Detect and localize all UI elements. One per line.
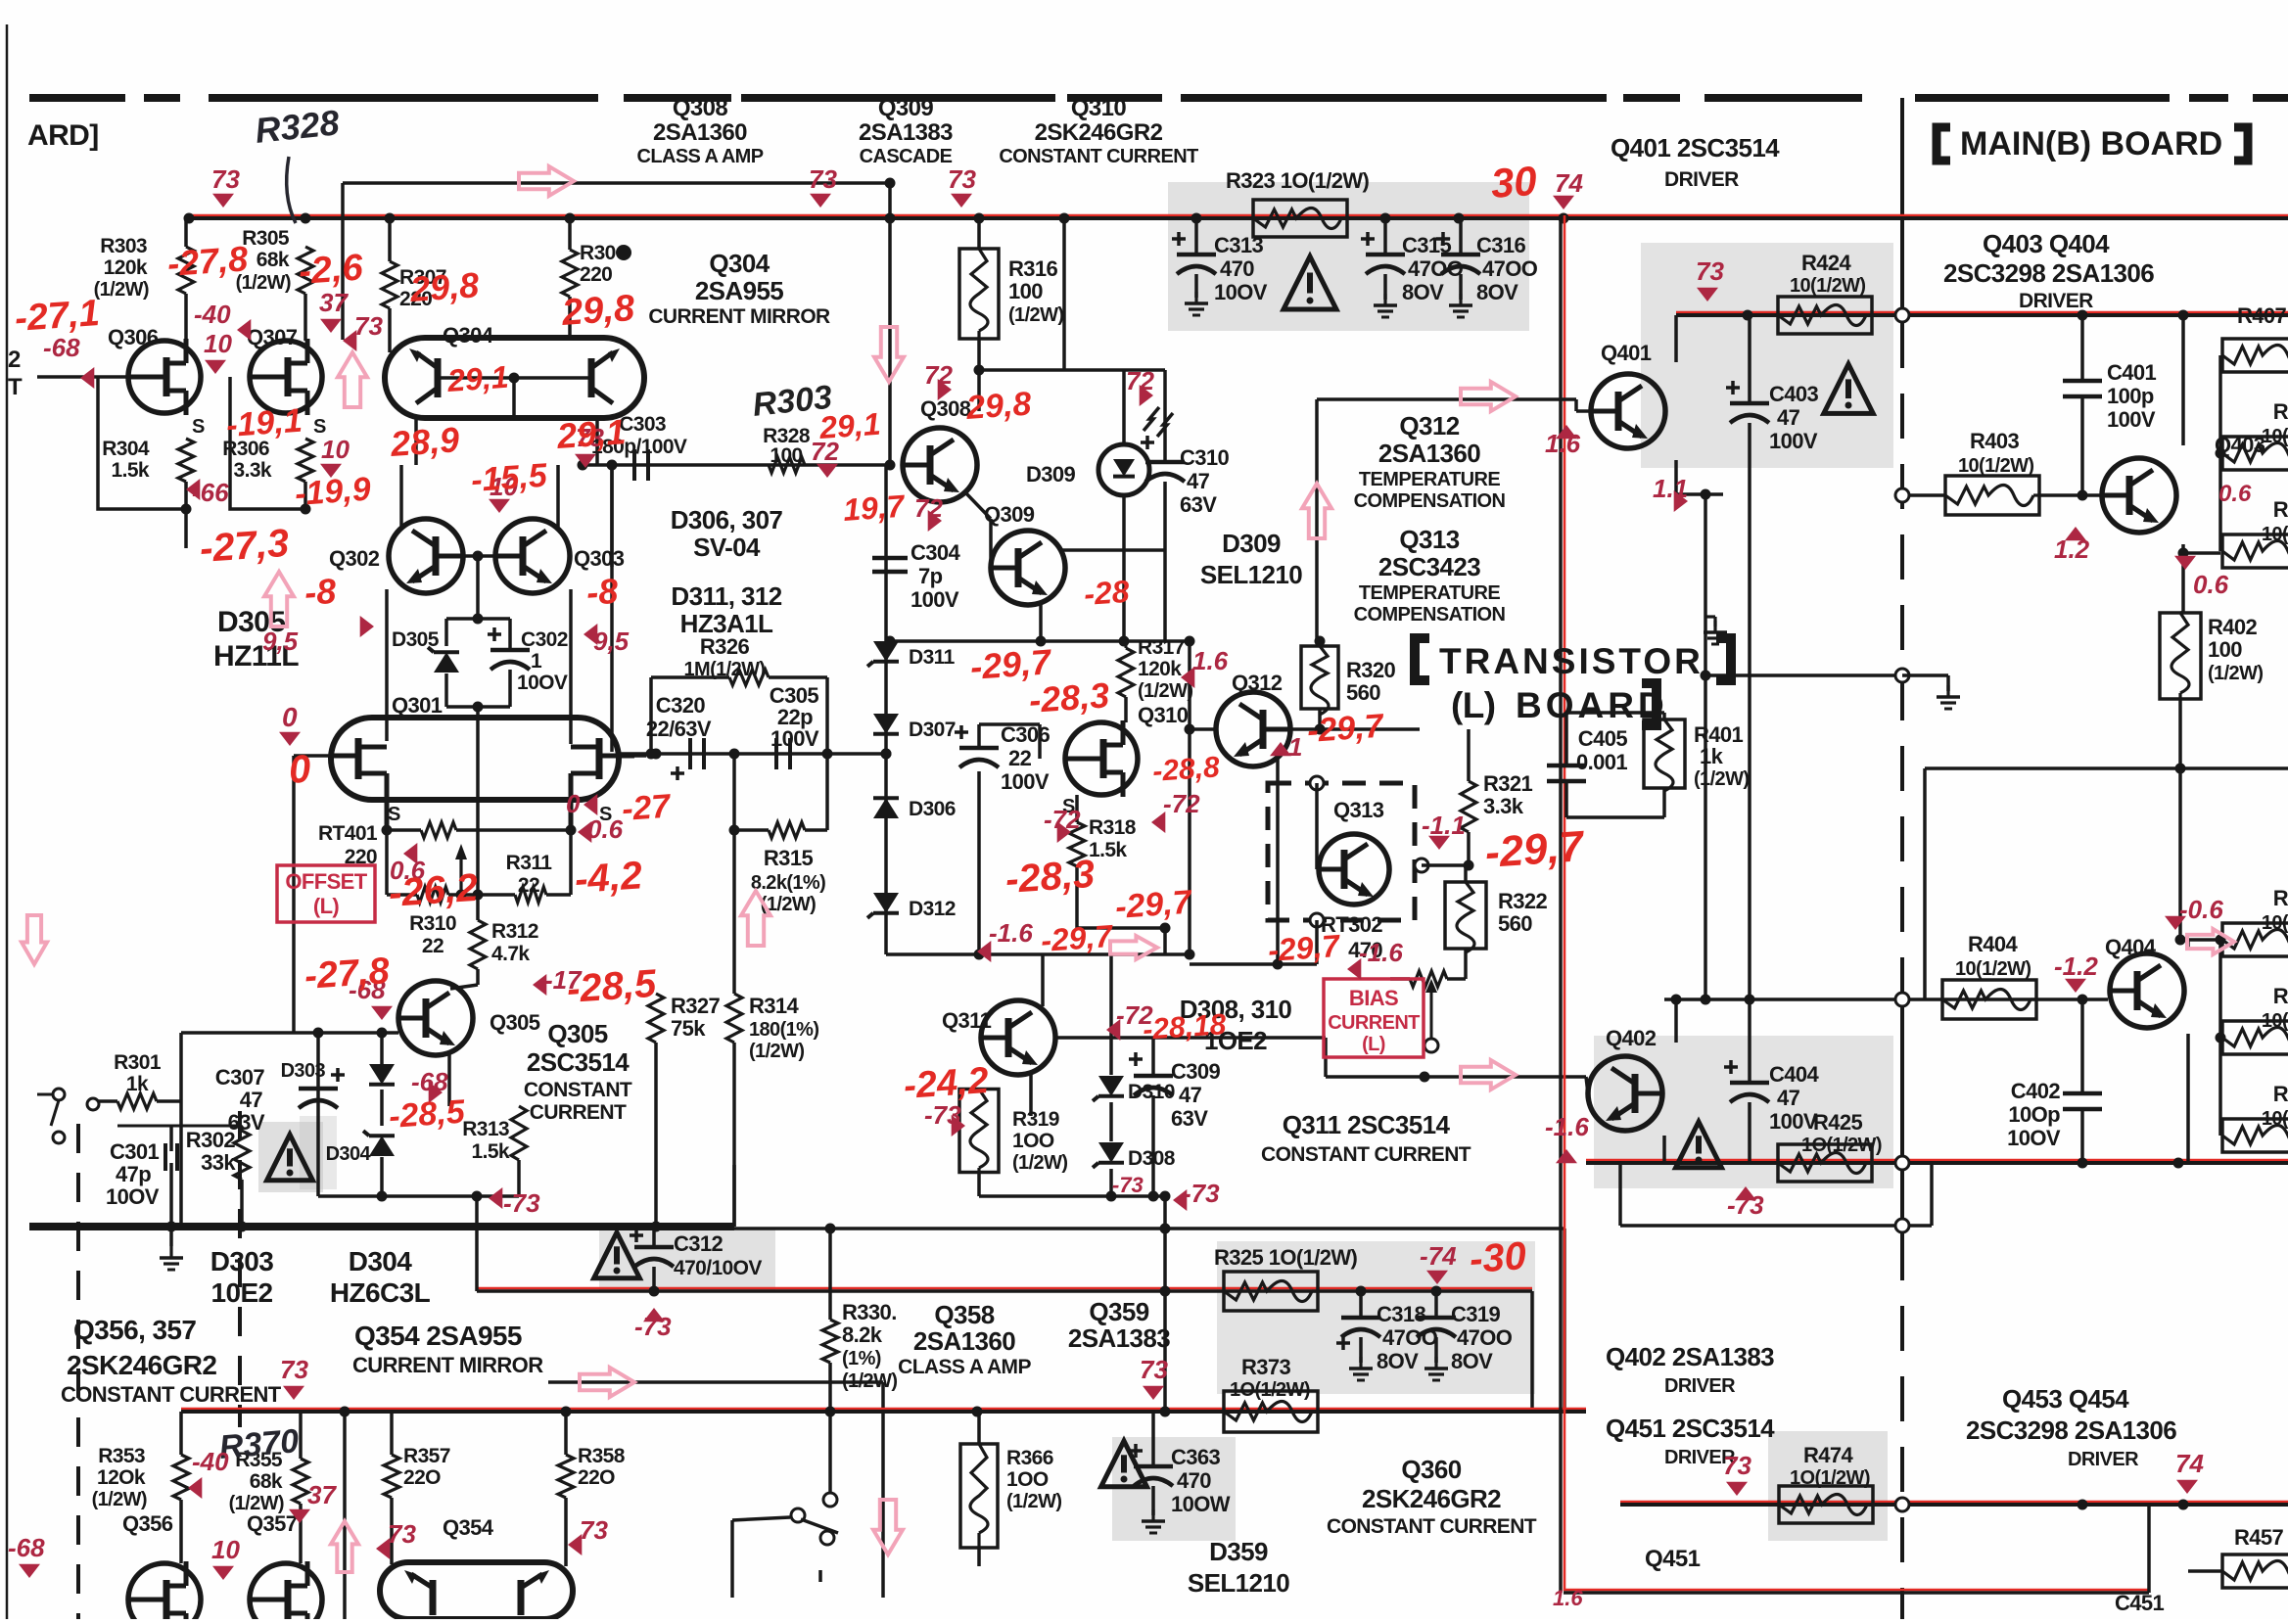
node rail E / Q404 (2173, 1158, 2184, 1169)
stamp 0.6 u (390, 843, 426, 885)
node y1222 x487 (472, 1191, 483, 1202)
svg-text:Q303: Q303 (574, 546, 625, 571)
label Q311 block (1261, 1110, 1471, 1166)
label R318 (1089, 816, 1137, 861)
label Q313 block (1354, 525, 1506, 626)
wire y=1627 (1564, 1591, 2149, 1595)
label R311 (506, 852, 553, 874)
resistor R311 (515, 887, 546, 903)
stamp 73 ar (1140, 1355, 1168, 1400)
svg-text:63V: 63V (1171, 1106, 1208, 1131)
svg-text:R322: R322 (1498, 889, 1548, 913)
node bus/C301 (166, 1222, 177, 1232)
transistor Q356 (128, 1561, 201, 1624)
warning triangle C363 (1101, 1441, 1147, 1487)
label R305 value (257, 249, 290, 271)
svg-text:CURRENT: CURRENT (530, 1101, 627, 1124)
wire RT302 wiper (1424, 1000, 1438, 1052)
label R474 (1790, 1443, 1870, 1489)
wire Q403 collector (2164, 315, 2183, 466)
svg-text:29,1: 29,1 (555, 411, 628, 456)
svg-text:2SK246GR2: 2SK246GR2 (67, 1350, 216, 1380)
LED D309 (1098, 444, 1149, 495)
svg-text:CLASS A AMP: CLASS A AMP (637, 146, 764, 167)
node rail J x2127 (2078, 1500, 2088, 1510)
svg-text:R373: R373 (1241, 1355, 1291, 1379)
capacitor C316 plus (1436, 232, 1450, 246)
label C313 (1214, 233, 1268, 304)
wire y=1255 mid (734, 1227, 1564, 1230)
transistor pair Q354 (380, 1562, 573, 1619)
svg-text:R315: R315 (764, 846, 814, 870)
capacitor C316 (1441, 255, 1480, 274)
svg-text:2SA1383: 2SA1383 (859, 119, 953, 146)
node rail B / C403 (1743, 310, 1753, 321)
hw -29.7 left (1114, 884, 1194, 926)
shading D304 area (258, 1122, 323, 1192)
svg-text:HZ3A1L: HZ3A1L (680, 609, 773, 638)
stamp 37 av (289, 1480, 337, 1523)
svg-text:R404: R404 (1968, 932, 2019, 956)
transistor Q402 (1588, 1056, 1662, 1131)
wire x670 top (655, 677, 657, 754)
resistor R321 (1461, 781, 1476, 832)
label R301 (114, 1051, 162, 1074)
label R355 (229, 1449, 284, 1514)
wire Q311 emitter (979, 1071, 1031, 1116)
stamp 1.2 bb (2054, 527, 2090, 564)
node x909/y187 (885, 178, 896, 189)
label ARD] (27, 119, 99, 152)
hw -28 q309 (1083, 574, 1131, 612)
svg-text:R302: R302 (186, 1128, 236, 1152)
svg-text:D304: D304 (349, 1246, 413, 1276)
stamp 1.6 ag (1181, 646, 1229, 688)
hw -26.2 (388, 866, 480, 915)
svg-text:2: 2 (8, 347, 21, 373)
svg-text:100V: 100V (1001, 769, 1050, 794)
LED D309 rays (1144, 407, 1173, 437)
resistor R313 (511, 1106, 527, 1160)
label D308 310 (1180, 995, 1292, 1055)
svg-text:C316: C316 (1476, 233, 1526, 257)
wire Q311 collector (1041, 954, 1045, 1006)
svg-text:Q308: Q308 (920, 396, 971, 421)
svg-text:Q301: Q301 (392, 693, 443, 718)
label Q356 (122, 1511, 173, 1536)
svg-text:RT401: RT401 (318, 822, 378, 845)
trimmer RT302 (1410, 971, 1447, 1000)
svg-text:73: 73 (809, 164, 837, 194)
svg-text:CURRENT: CURRENT (1328, 1012, 1420, 1034)
stamp 73 b (809, 164, 837, 208)
Q304 base tie (438, 376, 591, 380)
capacitor C320 plus (671, 766, 684, 780)
stamp 9.5 t (262, 616, 374, 656)
hw -15.5 (470, 457, 549, 499)
svg-text:100p: 100p (2107, 384, 2154, 408)
wire R355 (299, 1412, 303, 1563)
label D359 block (1188, 1537, 1289, 1598)
label R358 (578, 1445, 626, 1489)
svg-text:R318: R318 (1089, 816, 1137, 839)
mid rail y=785 right section (1925, 766, 2288, 770)
wire R316 down (977, 339, 981, 370)
node d305 top (473, 614, 484, 625)
svg-text:73: 73 (280, 1355, 308, 1384)
wire Q302-Q303 base tie (444, 554, 523, 558)
resistor R316 box (959, 249, 999, 339)
svg-text:Q311 2SC3514: Q311 2SC3514 (1283, 1110, 1451, 1139)
node y1318/x1190 (1160, 1286, 1171, 1297)
stamp 73 f (1696, 256, 1724, 302)
label R316 (1008, 256, 1063, 326)
shading R474 area (1768, 1431, 1888, 1541)
svg-text:100V: 100V (911, 587, 959, 612)
wire C403 (1748, 315, 1751, 494)
label C307 voltage (228, 1110, 265, 1135)
resistor R312 (470, 920, 486, 969)
node y1442/x352 (340, 1407, 350, 1417)
capacitor C403 (1730, 403, 1769, 423)
stamp 74 d (1553, 168, 1583, 209)
label Q310 (1138, 703, 1189, 727)
svg-text:C404: C404 (1769, 1062, 1820, 1087)
ground stub right of C405 (1704, 617, 1727, 644)
label R319 (1012, 1108, 1067, 1174)
node y745 x1348 (1315, 724, 1326, 735)
hw -2.6 (298, 247, 365, 293)
wire R307 to Q304 (388, 308, 392, 352)
label Q312 (1232, 671, 1283, 695)
wire Q401 collector (1653, 315, 1676, 387)
svg-text:8.2k(1%): 8.2k(1%) (751, 872, 825, 894)
wire center down (476, 707, 480, 895)
label RT302 (1321, 912, 1382, 962)
label right resistor 6 (2262, 1082, 2288, 1130)
shading Q402/C404/R425 area (1594, 1036, 1893, 1188)
capacitor C312 plus (630, 1229, 643, 1242)
hw -27.1 (14, 293, 101, 340)
node rail B / C401 (2078, 310, 2088, 321)
node y1318/x1390 (1356, 1286, 1367, 1297)
+73V top supply rail (189, 216, 2288, 220)
svg-text:10OV: 10OV (517, 672, 568, 694)
wire right box top (2220, 354, 2222, 356)
svg-text:Q305: Q305 (547, 1019, 607, 1048)
node Q404 base (2078, 995, 2088, 1005)
label R302 (186, 1128, 237, 1175)
label R407 (2237, 303, 2287, 328)
wire Q402 emitter (1650, 1119, 1664, 1163)
capacitor C309 (1134, 1076, 1173, 1095)
svg-text:R353: R353 (98, 1445, 145, 1467)
svg-text:R358: R358 (578, 1445, 626, 1467)
wire y975 ext (979, 952, 1190, 956)
svg-text:8OV: 8OV (1402, 280, 1444, 304)
resistor R317 (1118, 648, 1134, 697)
resistor R327 (648, 994, 664, 1043)
wire Q310 drain up (1122, 705, 1124, 722)
node Q304 base mid (509, 373, 520, 384)
svg-text:(1/2W): (1/2W) (1694, 768, 1749, 790)
label C302 value (531, 650, 542, 673)
svg-text:68k: 68k (257, 249, 290, 271)
wire C318 (1359, 1291, 1363, 1363)
svg-text:3.3k: 3.3k (1483, 794, 1524, 818)
svg-text:Q451 2SC3514: Q451 2SC3514 (1606, 1414, 1775, 1443)
resistor R318 (1069, 822, 1085, 866)
node right tie lower (2216, 1033, 2226, 1044)
wire y1222 right (979, 1194, 1165, 1198)
open circle y1252 board boundary (1895, 1219, 1909, 1232)
svg-text:C451: C451 (2115, 1591, 2165, 1615)
wire R315 (734, 754, 827, 994)
svg-text:47: 47 (1179, 1083, 1202, 1107)
svg-text:37: 37 (319, 288, 349, 317)
svg-text:47OO: 47OO (1457, 1325, 1513, 1350)
svg-text:2SC3298 2SA1306: 2SC3298 2SA1306 (1966, 1415, 2176, 1445)
resistor R407 box (2222, 339, 2288, 372)
label C319 (1451, 1302, 1513, 1373)
hw 19.7 (842, 488, 908, 528)
hw -29.7 mid (969, 641, 1054, 687)
svg-text:73: 73 (1723, 1451, 1751, 1480)
node x1712 y1021 (1671, 995, 1682, 1005)
stamp 1.6 ai (1545, 425, 1581, 458)
stamp 0.6 w (578, 814, 624, 844)
svg-text:C309: C309 (1171, 1059, 1221, 1084)
svg-text:DRIVER: DRIVER (1664, 168, 1739, 191)
node rail/R316 (974, 213, 985, 224)
wire R322-RT302 (1447, 977, 1466, 981)
flow arrow y408 (1461, 382, 1516, 411)
resistor R326 (729, 670, 769, 685)
svg-text:-1.6: -1.6 (989, 918, 1033, 948)
wire Q403 emitter (2164, 525, 2183, 612)
label R310 value (422, 935, 444, 957)
wire R353 (179, 1412, 183, 1563)
svg-text:CURRENT MIRROR: CURRENT MIRROR (648, 305, 830, 328)
node y975 x1000 (974, 950, 985, 960)
svg-text:1.5k: 1.5k (1089, 839, 1127, 861)
resistor R330 (822, 1320, 838, 1363)
label D310 (1128, 1081, 1175, 1103)
svg-text:-1.6: -1.6 (1359, 938, 1403, 967)
wire Q313 col (1389, 865, 1415, 869)
resistor R315 (769, 822, 805, 838)
svg-text:10Op: 10Op (2008, 1102, 2060, 1127)
svg-text:10E2: 10E2 (211, 1277, 273, 1308)
svg-text:DRIVER: DRIVER (1664, 1375, 1736, 1397)
svg-text:33k: 33k (201, 1150, 236, 1175)
resistor R457 box (2222, 1554, 2288, 1588)
svg-text:73: 73 (211, 164, 240, 194)
node Q305 base x325 (313, 1028, 324, 1039)
resistor R325 box (1224, 1272, 1318, 1311)
stamp 1.1 aj (1653, 474, 1688, 512)
wire x1742 down (1704, 494, 1707, 675)
wire Q402 base (1586, 1077, 1588, 1093)
node rail/x909 (885, 213, 896, 224)
svg-text:120k: 120k (1138, 658, 1182, 680)
open circle R330 bottom (823, 1493, 837, 1507)
wire right boxes tie (2183, 355, 2220, 553)
stamp 0.6 bd (2174, 556, 2229, 599)
svg-text:TEMPERATURE: TEMPERATURE (1359, 469, 1500, 490)
node y1222 x390 (377, 1191, 388, 1202)
vertical x=1565 joining rails (1530, 1291, 1534, 1412)
hw -29.7 r321 (1483, 822, 1587, 877)
svg-text:Q312: Q312 (1399, 411, 1459, 441)
node rail/R307 (385, 213, 396, 224)
svg-text:R303: R303 (100, 235, 147, 257)
label C405 (1576, 726, 1627, 774)
svg-text:C313: C313 (1214, 233, 1264, 257)
svg-text:0.6: 0.6 (2193, 570, 2229, 599)
stamp -68 ax (8, 1533, 45, 1578)
svg-text:22: 22 (518, 874, 539, 897)
open node Q313 base top (1310, 776, 1324, 790)
label C316 (1476, 233, 1538, 304)
svg-text:0: 0 (566, 789, 581, 818)
svg-text:CLASS A AMP: CLASS A AMP (898, 1356, 1031, 1378)
svg-text:47: 47 (1777, 405, 1800, 430)
svg-text:29,8: 29,8 (408, 264, 481, 309)
svg-text:22O: 22O (578, 1466, 615, 1489)
hw -29.7 r320 (1306, 708, 1386, 750)
svg-text:R: R (2273, 497, 2288, 522)
zener D312 (867, 893, 899, 918)
resistor R323 box (1253, 200, 1347, 237)
label Q304 block (648, 249, 830, 328)
label Q401 top (1611, 133, 1780, 191)
svg-text:470: 470 (1220, 256, 1254, 281)
svg-text:10(: 10( (2262, 426, 2288, 447)
resistor R424 box (1778, 297, 1872, 334)
svg-text:SV-04: SV-04 (693, 533, 761, 562)
svg-text:CONSTANT CURRENT: CONSTANT CURRENT (1261, 1143, 1471, 1166)
wire collector Q305 up (435, 905, 437, 981)
wire R357 (390, 1412, 394, 1564)
label R311 value (518, 874, 539, 897)
svg-text:37: 37 (307, 1480, 337, 1509)
wire R301 (96, 1099, 318, 1103)
stamp 0 v (566, 789, 597, 818)
svg-text:C301: C301 (110, 1139, 160, 1164)
wire C309 (1151, 1038, 1155, 1196)
wire y475 main (583, 463, 890, 467)
wire y1222 (318, 1194, 477, 1198)
svg-text:-28,18: -28,18 (1142, 1008, 1227, 1046)
svg-text:22O: 22O (403, 1466, 441, 1489)
node y655 x1063 (1036, 636, 1047, 647)
label R308 value (580, 263, 612, 286)
label C302 voltage (517, 672, 568, 694)
wire Q307 source loop (230, 377, 305, 509)
resistor R402 box (2160, 613, 2201, 699)
hw -19.1 (225, 402, 304, 444)
capacitor C302 plus (488, 627, 501, 641)
svg-text:63V: 63V (1180, 492, 1217, 517)
wire R310 R311 row (387, 830, 571, 895)
label Q302 (329, 546, 380, 571)
wire C405 R401 top (1566, 713, 1664, 766)
svg-text:1.5k: 1.5k (472, 1140, 510, 1163)
svg-text:Q401 2SC3514: Q401 2SC3514 (1611, 133, 1780, 162)
wire R358 (564, 1412, 568, 1566)
board boundary vertical dashed mid (1900, 323, 1904, 994)
svg-text:10OV: 10OV (2007, 1126, 2061, 1150)
resistor R302 (234, 1131, 250, 1180)
svg-text:2SC3423: 2SC3423 (1378, 552, 1480, 581)
node y1442/x578 (561, 1407, 572, 1417)
node rail J x2230 (2178, 1500, 2189, 1510)
svg-text:100: 100 (2208, 637, 2242, 662)
svg-text:R: R (2273, 984, 2288, 1008)
svg-text:-40: -40 (194, 300, 231, 329)
svg-text:-29,7: -29,7 (1114, 884, 1194, 926)
label C301 voltage (106, 1184, 160, 1209)
label D303 diode (281, 1060, 326, 1082)
svg-text:R327: R327 (671, 994, 721, 1018)
capacitor C303 (634, 449, 648, 481)
wire R312 to Q305 (450, 969, 478, 989)
stamp 10 s (489, 472, 518, 513)
label D305 diode (392, 628, 440, 651)
node x1000 y378 (974, 365, 985, 376)
label R304 (102, 438, 150, 460)
wire Q308 collector (964, 370, 979, 436)
wire Q404 emitter (2171, 1016, 2188, 1163)
wire R302 (241, 1126, 244, 1227)
svg-text:R30: R30 (580, 242, 616, 264)
node y1222 x1190b (1160, 1191, 1171, 1202)
wire y745 Q312-R320 (1290, 729, 1420, 783)
wire Q401 base (1561, 399, 1591, 411)
stamp -73 al (634, 1308, 672, 1341)
capacitor C315 (1366, 255, 1405, 274)
svg-text:-73: -73 (1112, 1173, 1144, 1197)
node R330 top (825, 1224, 836, 1234)
label R321 (1483, 771, 1533, 818)
node y655 x1148b (1119, 636, 1130, 647)
svg-text:D304: D304 (326, 1143, 372, 1165)
svg-text:9,5: 9,5 (593, 626, 630, 656)
flow arrow x285 up (264, 572, 294, 626)
node x909 y655 (885, 636, 896, 647)
wire x325 down (316, 1033, 320, 1077)
node y985 x1305 (1273, 959, 1284, 970)
stamp 72 p (1126, 366, 1154, 406)
svg-text:1: 1 (1288, 732, 1302, 762)
wire x1742 690-1021 (1704, 675, 1707, 999)
stamp 0.6 be (2218, 481, 2252, 507)
right resistor box 5 (2222, 1021, 2288, 1054)
svg-text:73: 73 (1140, 1355, 1168, 1384)
node y1222 x1135 (1106, 1191, 1117, 1202)
label Q451 driver (1606, 1414, 1775, 1468)
wire D309 loop (1124, 550, 1165, 641)
svg-text:C401: C401 (2107, 360, 2157, 385)
switch lower (791, 1508, 838, 1582)
svg-text:R403: R403 (1970, 429, 2020, 453)
transistor Q312 (1216, 692, 1290, 766)
svg-text:0: 0 (288, 748, 312, 792)
adjust box BIAS CURRENT (1324, 979, 1424, 1057)
svg-text:Q401: Q401 (1601, 341, 1652, 365)
label RT401 (318, 822, 378, 845)
